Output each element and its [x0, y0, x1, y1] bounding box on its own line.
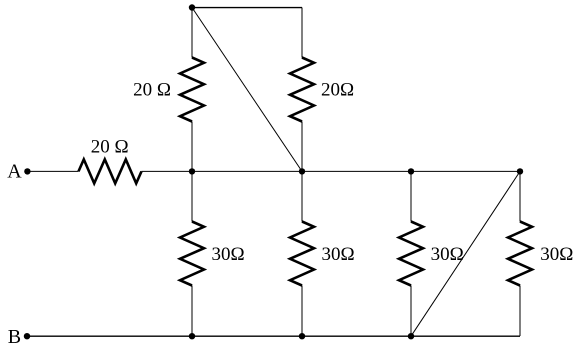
svg-text:30Ω: 30Ω: [322, 244, 355, 265]
svg-text:A: A: [7, 161, 22, 183]
svg-text:B: B: [8, 326, 21, 344]
svg-text:20 Ω: 20 Ω: [91, 137, 129, 158]
svg-text:30Ω: 30Ω: [431, 244, 464, 265]
svg-text:30Ω: 30Ω: [540, 244, 573, 265]
svg-text:20 Ω: 20 Ω: [133, 80, 171, 101]
svg-text:20Ω: 20Ω: [321, 80, 354, 101]
svg-text:30Ω: 30Ω: [212, 244, 245, 265]
